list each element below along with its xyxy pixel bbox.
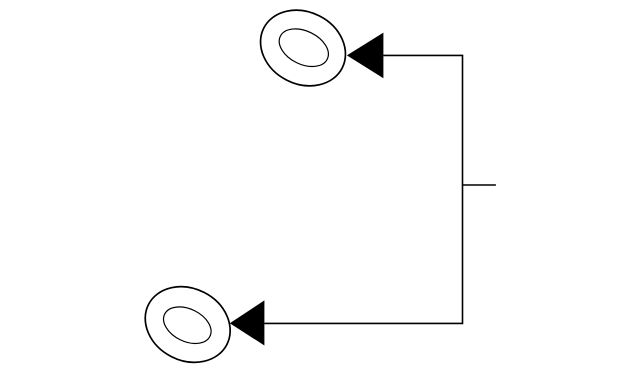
node B outer ring xyxy=(132,272,243,373)
arrowhead into node A xyxy=(347,33,384,79)
node A inner ring xyxy=(273,21,334,74)
arrowhead into node B xyxy=(230,300,265,345)
wire from node A to vertical bus and down to node B xyxy=(264,55,462,323)
node A outer ring xyxy=(247,0,358,100)
node B inner ring xyxy=(158,300,218,351)
stub wire on bus xyxy=(463,184,496,186)
